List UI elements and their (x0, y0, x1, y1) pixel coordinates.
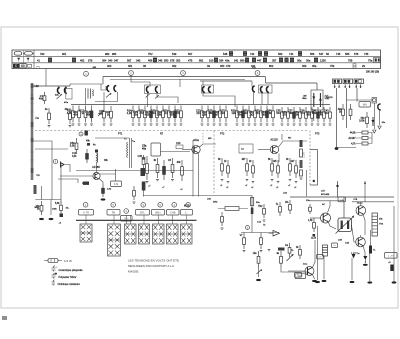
curve mark in row3 (36, 66, 40, 67)
svg-text:PT1: PT1 (118, 133, 123, 136)
Q1 collector lead (96, 163, 98, 173)
trimmer arrow S2 (106, 93, 111, 98)
ground row C2 (207, 124, 210, 125)
switch feed x172.5 (172, 215, 174, 224)
decoupling resistor row B2 (133, 106, 140, 123)
svg-text:984: 984 (112, 52, 117, 56)
bridge element right (347, 221, 349, 230)
S3 step right (157, 94, 178, 104)
svg-text:330: 330 (169, 113, 174, 116)
dial table left box mid divider (23, 50, 25, 63)
ground row A1 (72, 124, 75, 125)
svg-text:678: 678 (170, 58, 175, 62)
tuning gang CV4a (202, 87, 204, 93)
dark box left lower (141, 168, 146, 176)
S5 drop c (267, 93, 269, 104)
antenna dark tap top (31, 84, 34, 88)
ground row B7 (168, 124, 171, 125)
wire junction to audio (337, 181, 339, 197)
ground pad x317 (315, 281, 320, 283)
tuning gang CV1b (64, 88, 66, 94)
ground S2a (103, 124, 106, 125)
svg-text:40n: 40n (73, 113, 78, 116)
svg-text:MESUREES PAR RAPPORT A LA: MESUREES PAR RAPPORT A LA (128, 264, 174, 268)
dial row2 stacked cell #5 (245, 58, 249, 63)
decoupling resistor row E6 (306, 107, 313, 123)
antenna coil ticks (31, 95, 34, 160)
fuse pill F1 (14, 52, 21, 55)
svg-text:2k7: 2k7 (291, 160, 296, 163)
svg-text:543: 543 (172, 52, 177, 56)
ground row D4 (254, 124, 257, 125)
ground pad Q1 (101, 198, 106, 200)
ground row E9 (329, 124, 332, 125)
IF transformer T4 box (259, 85, 273, 93)
ground R33 (171, 180, 174, 181)
dial row1 stacked cell #1 (229, 51, 233, 56)
small box right end of row2 (374, 57, 381, 62)
wire antenna top bus (33, 85, 70, 87)
svg-text:650: 650 (164, 58, 169, 62)
element stack right of E (300, 140, 303, 147)
ground row E5 (305, 124, 308, 125)
wire from antenna area down (41, 186, 43, 200)
switch feed x186.5 (186, 215, 188, 224)
svg-text:456: 456 (148, 58, 153, 62)
switch label C- (121, 216, 133, 222)
node circle 2 (129, 71, 134, 76)
svg-text:982: 982 (105, 52, 110, 56)
svg-text:MASSE: MASSE (128, 270, 139, 274)
ground arrow under T (373, 130, 376, 133)
decoupling resistor row B4 (145, 106, 153, 123)
wire far right top (376, 201, 394, 203)
ground mid small (268, 250, 271, 251)
S1 right stem (65, 86, 67, 88)
S5 drop a (253, 93, 255, 106)
dial row1 stacked cell #4 (264, 51, 268, 56)
svg-text:2,2k: 2,2k (127, 112, 132, 115)
transistor Q4 (321, 213, 331, 223)
switch feed x130.3 (129, 215, 131, 224)
dark mark mid-left (87, 143, 90, 146)
dial row2 stacked cell #6 (252, 58, 256, 63)
diode D3 (372, 117, 374, 126)
wire left frame lower (35, 148, 68, 150)
resistor S2a (98, 106, 105, 123)
junction dot audio top (336, 185, 338, 187)
ground row C4 (219, 124, 222, 125)
Q3 base wire (258, 149, 270, 151)
svg-text:BTL: BTL (140, 211, 145, 215)
bias resistor column RB2 (224, 160, 229, 178)
switch feed x126.3 (125, 215, 127, 224)
svg-text:546: 546 (223, 52, 228, 56)
svg-text:453: 453 (302, 64, 307, 68)
Q4 collector up (328, 201, 331, 213)
element column LS6 (251, 198, 254, 206)
switch bank B3 (125, 224, 137, 244)
ground pad right col (367, 281, 372, 283)
dial row1 stacked cell #2 (243, 51, 247, 56)
svg-text:AF1a: AF1a (193, 139, 199, 142)
svg-text:47n: 47n (300, 112, 305, 115)
resistor R62 (240, 233, 246, 250)
ground pad RM1 (39, 218, 44, 220)
diode D2 AA119 (319, 93, 321, 107)
decoupling resistor row E5 (300, 107, 307, 123)
switch feed x158.5 (158, 215, 160, 224)
svg-text:75V: 75V (148, 52, 153, 56)
trimmer diag R64 (257, 270, 262, 275)
dark mark under R70 (313, 234, 316, 237)
IF transformer T3 box (202, 85, 214, 93)
lamp symbol right (27, 58, 30, 61)
svg-text:LB2: LB2 (35, 85, 40, 88)
diode D1 AA119 (313, 93, 315, 107)
bias resistor column RB6 (273, 160, 280, 178)
meter box T (372, 98, 377, 104)
ground row E3 (293, 124, 296, 125)
wire RM2 (50, 200, 52, 216)
tuning gang CV4b (208, 87, 210, 93)
svg-text:047: 047 (114, 58, 119, 62)
svg-text:40a: 40a (39, 98, 44, 101)
decoupling resistor row E9 (324, 107, 331, 123)
small cell next to 80 (28, 64, 32, 67)
svg-text:75a: 75a (368, 58, 373, 62)
switch node circle 5 (111, 203, 116, 208)
S2 drop right (117, 92, 119, 102)
dial table row divider 1 (12, 55, 381, 57)
label box C20b (332, 243, 338, 248)
Q1 emitter wire (99, 179, 103, 185)
resistor RL2 (65, 108, 72, 124)
svg-text:40a: 40a (142, 148, 147, 151)
svg-text:744: 744 (250, 52, 255, 56)
decoupling resistor row A1 (67, 106, 75, 123)
ground row B5 (156, 124, 159, 125)
resistor RA2 (258, 204, 265, 218)
antenna dark tap low (31, 168, 34, 173)
svg-text:901: 901 (62, 52, 67, 56)
switch bank B5 (153, 224, 165, 244)
svg-text:NU: NU (288, 138, 292, 140)
svg-text:052: 052 (176, 58, 181, 62)
wire under C40 (379, 110, 381, 125)
svg-text:270: 270 (282, 113, 287, 116)
svg-text:1,5k: 1,5k (202, 113, 207, 116)
svg-text:40n: 40n (324, 112, 329, 115)
wire top frame long (103, 76, 266, 78)
decoupling resistor row A2 (73, 106, 80, 123)
resistor RL1 (45, 108, 51, 124)
ground row B3 (144, 124, 147, 125)
IF transformer T2 box (145, 85, 161, 94)
diode D5 (287, 254, 294, 261)
svg-text:4k7: 4k7 (242, 158, 247, 161)
decoupling resistor row D4 (249, 106, 256, 123)
dashed stub above Q2 (202, 133, 204, 144)
svg-text:44,5k: 44,5k (350, 133, 356, 135)
switch node circle 2 (124, 209, 129, 214)
svg-text:563: 563 (278, 52, 283, 56)
svg-text:576: 576 (354, 52, 359, 56)
decoupling resistor row B9 (175, 106, 182, 123)
svg-text:744: 744 (289, 52, 294, 56)
switch feed x114 (113, 215, 115, 224)
svg-text:1k5: 1k5 (273, 160, 278, 163)
wire T5 to Q2 (161, 151, 191, 153)
resistor C59 (70, 138, 78, 154)
bias resistor column RB8 (291, 160, 298, 178)
ground row C5 (225, 124, 228, 125)
ground pad R64 (256, 279, 261, 281)
wire right col low (369, 254, 371, 282)
wire audio top a (290, 196, 394, 198)
ground pad x352 (350, 281, 355, 283)
wire top right link (352, 201, 376, 203)
label box Ca +9V (385, 253, 398, 259)
svg-text:045: 045 (158, 58, 163, 62)
wire TR4 low (370, 230, 372, 246)
svg-text:CHB: CHB (170, 211, 176, 215)
resistor R34 (177, 160, 184, 181)
decoupling resistor row D5 (255, 106, 262, 123)
wire y79 S3 feed (110, 79, 245, 81)
dark mark left of Q1 (83, 182, 89, 185)
switch bus line (76, 219, 197, 221)
Q7 base wire (288, 270, 305, 272)
dark mark near circle 11 (85, 131, 88, 136)
ground R62 (243, 251, 246, 252)
Q7 collector up (313, 240, 316, 268)
trimmer arrow S3b (155, 95, 159, 99)
label box 1,5 (317, 255, 324, 259)
trimmer arrow S1 (57, 95, 62, 100)
tuning gang CV5s (252, 86, 254, 92)
C20 small box (176, 145, 183, 148)
legend resistor symbol (48, 259, 58, 263)
ground row B2 (138, 124, 141, 125)
svg-text:040: 040 (108, 58, 113, 62)
svg-text:745: 745 (364, 52, 369, 56)
connector CN2 pins (345, 84, 349, 88)
svg-text:758: 758 (348, 58, 353, 62)
connector block CN3 (354, 79, 364, 84)
label box R20 (295, 274, 306, 279)
dark marks above R65 (278, 248, 285, 251)
svg-text:910: 910 (209, 58, 214, 62)
svg-text:290 290 (29): 290 290 (29) (366, 72, 379, 74)
svg-text:565: 565 (345, 52, 350, 56)
svg-text:057: 057 (272, 58, 277, 62)
ground RB4 (252, 182, 255, 183)
R64 lead low (258, 268, 260, 277)
trimmer arrow S3a (146, 94, 150, 98)
decoupling resistor row C2 (202, 106, 210, 123)
svg-text:LES TENSIONS EN VOLTS ONT: LES TENSIONS EN VOLTS ONT ETE (128, 259, 179, 263)
cap C12 element (86, 149, 89, 163)
R65 to right (281, 268, 309, 272)
Q5 emitter down (363, 215, 365, 236)
node circle 1 (84, 71, 89, 76)
box C58 (151, 143, 161, 156)
node circle 9 (53, 159, 57, 163)
dial row1 stacked cell #5 (298, 51, 302, 56)
resistor RM1 (36, 201, 43, 215)
ground row D3 (248, 124, 251, 125)
decoupling resistor row B5 (150, 106, 158, 123)
legend ceramic symbol (52, 266, 56, 272)
wire under T (373, 103, 375, 129)
bias resistor column RB5 (268, 158, 273, 176)
antenna extra taps (31, 138, 34, 142)
node circle 3 (181, 71, 186, 76)
ground RA2 (263, 220, 266, 221)
PT3 dashed box left edge (309, 131, 311, 186)
ground pad D6 (363, 264, 368, 266)
ground pad Q7b (322, 280, 327, 282)
ground row E4 (299, 124, 302, 125)
svg-text:AC187: AC187 (348, 137, 356, 140)
wire stack right (371, 132, 373, 144)
svg-text:745: 745 (336, 52, 341, 56)
switch label CHB (167, 210, 180, 216)
connector block CN2 (343, 79, 353, 84)
decoupling resistor row E7 (312, 107, 320, 123)
Q6 top lead (360, 235, 362, 237)
wire audio top b (310, 200, 344, 202)
connector CN1 pins (335, 84, 339, 88)
Q2 base wire (182, 149, 192, 151)
svg-text:C20: C20 (176, 142, 181, 145)
Q3 emitter down (278, 154, 280, 163)
svg-text:a +9V: a +9V (388, 256, 394, 258)
bias resistor column RB7 (286, 158, 291, 176)
wire y232 link (241, 232, 279, 234)
svg-text:802: 802 (269, 64, 274, 68)
switch node circle 6 (158, 203, 163, 208)
svg-text:5,6k: 5,6k (55, 202, 60, 205)
wire y82 S3 left (131, 79, 150, 87)
wire Q8 out (64, 165, 70, 173)
long wire mid bottom (143, 196, 252, 233)
choke striped element (323, 245, 328, 256)
Q3 collector out (279, 141, 308, 147)
label box C30 (338, 197, 346, 202)
resistor stack R52 (362, 142, 368, 145)
S5 drop b (261, 93, 263, 104)
arrow mark x365 (364, 181, 366, 184)
ground row C1 (201, 124, 204, 125)
svg-text:6,8k: 6,8k (267, 112, 272, 115)
resistor R63 (260, 233, 263, 250)
decoupling resistor row E4 (294, 107, 301, 123)
Q2 collector down (198, 154, 200, 197)
svg-text:FB: FB (112, 211, 116, 215)
svg-text:034: 034 (219, 58, 224, 62)
tuning gang CV5a (260, 87, 262, 93)
dial row2 stacked cell #8 (279, 58, 283, 63)
connector 80 label cell (20, 64, 27, 68)
wire band to antenna (45, 69, 47, 87)
decoupling resistor row C5 (220, 106, 227, 123)
ground row D5 (260, 124, 263, 125)
box near PT2 (239, 144, 253, 153)
svg-text:FG: FG (36, 117, 39, 120)
tuning gang CV1a (57, 88, 59, 94)
transistor Q1 (93, 172, 100, 179)
svg-text:PT3: PT3 (315, 133, 320, 136)
wire circle2 stub (130, 76, 132, 80)
wire CN3 drop (356, 88, 358, 102)
transistor Q8 small (61, 162, 65, 168)
switch node circle 1 (83, 203, 88, 208)
Q2 emitter out (200, 144, 217, 147)
tuning gang CV3a (146, 87, 148, 93)
svg-text:1,17k: 1,17k (304, 152, 306, 158)
svg-text:567: 567 (127, 58, 132, 62)
ground pad RM2 (49, 218, 54, 220)
decoupling resistor row D6 (261, 106, 268, 123)
ground RB1 (221, 180, 224, 181)
ground row E2 (287, 124, 290, 125)
resistor stack R50 (362, 131, 368, 134)
wire x193 long (192, 140, 194, 197)
bridge element left (341, 221, 343, 230)
switch label FB (107, 210, 120, 216)
Q1 base wire (60, 175, 93, 177)
svg-text:BM1: BM1 (155, 211, 161, 215)
rail feed from S1 area (85, 88, 87, 105)
S4 top stub (202, 81, 204, 85)
svg-text:473: 473 (226, 64, 231, 68)
resistor R65 (276, 251, 282, 268)
svg-text:100n: 100n (150, 112, 156, 115)
svg-text:50n: 50n (276, 112, 281, 115)
element lead (143, 191, 145, 197)
svg-text:AC125: AC125 (270, 139, 278, 142)
coil L5 top blob (95, 150, 98, 153)
wire choke down (323, 256, 325, 279)
Q4 emitter down (328, 221, 337, 230)
S2 lower link (95, 101, 118, 103)
module box MA (359, 102, 371, 108)
dial table outer box (12, 50, 381, 69)
wire notch S2 (101, 84, 106, 90)
svg-text:3,3k: 3,3k (312, 112, 317, 115)
PT3 box right edge (317, 150, 319, 186)
wire frame left drop (102, 77, 104, 84)
svg-text:1,5k: 1,5k (308, 219, 313, 222)
scan artifact bottom-left (2, 316, 7, 320)
svg-text:390: 390 (261, 113, 266, 116)
svg-text:43a: 43a (225, 58, 230, 62)
switch label BTL (136, 210, 150, 216)
pot TR4 hatch box (372, 213, 377, 236)
ground row D6 (266, 124, 269, 125)
resistor RA5 (285, 243, 291, 257)
Q6 base wire (352, 225, 356, 242)
wire S1 to S2 (70, 84, 103, 86)
resistor RA6 (296, 245, 301, 259)
wire bridge feed (343, 197, 345, 218)
Q5 collector up (360, 202, 362, 206)
svg-text:10n: 10n (133, 113, 138, 116)
svg-text:3,3k: 3,3k (114, 183, 119, 186)
ground row A3 (84, 124, 87, 125)
